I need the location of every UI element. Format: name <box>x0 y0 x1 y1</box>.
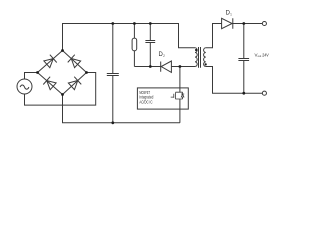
wire secondary bottom to output minus terminal <box>206 67 263 94</box>
wire dc+ top rail from bridge to transformer primary top <box>63 24 196 51</box>
wire bridge bottom-right edge <box>63 73 87 95</box>
svg-text:AC/DC IC: AC/DC IC <box>139 99 152 104</box>
node snubber C2 bottom <box>149 65 152 68</box>
diode bridge bottom-right <box>68 77 81 90</box>
wire dc- bottom rail from bridge to mosfet source <box>63 95 180 123</box>
node output minus <box>242 92 245 95</box>
diode bridge top-right <box>68 55 81 68</box>
diode bridge bottom-left <box>43 77 56 90</box>
wire bridge top-right edge <box>63 51 87 73</box>
node bridge left <box>36 71 39 74</box>
svg-text:2: 2 <box>163 54 165 58</box>
polarity dot secondary <box>205 63 207 65</box>
node bridge right <box>85 71 88 74</box>
node drain junction <box>179 65 182 68</box>
resistor R1 snubber <box>132 24 137 67</box>
node output plus <box>242 22 245 25</box>
ac source V1 <box>17 79 32 94</box>
svg-text:1: 1 <box>230 13 232 17</box>
diode D2 snubber clamp <box>161 61 172 72</box>
node bridge bottom <box>61 93 64 96</box>
wire D1 cathode to output plus terminal <box>233 23 263 25</box>
node C1 bottom <box>111 121 114 124</box>
diode D1 output rectifier <box>222 18 233 28</box>
label Vout 24V <box>255 52 269 58</box>
terminal output minus <box>262 91 266 95</box>
svg-text:24V: 24V <box>262 52 269 57</box>
node rail C2 top <box>149 22 152 25</box>
transformer T1 core <box>199 47 201 68</box>
label D2 <box>159 51 165 58</box>
svg-text:out: out <box>258 54 262 58</box>
terminal output plus <box>262 21 266 25</box>
wire ac hot to bridge left node <box>25 73 38 80</box>
mosfet Q1 symbol inside ic <box>171 92 185 99</box>
node bridge top <box>61 49 64 52</box>
diode bridge top-left <box>43 55 56 68</box>
ic U1 box outline <box>137 88 188 109</box>
node rail R1 top <box>133 22 136 25</box>
capacitor C3 output <box>238 24 249 94</box>
label D1 <box>226 9 232 16</box>
wire mosfet drain <box>179 67 181 93</box>
wire bridge bottom-left edge <box>38 73 63 95</box>
capacitor C2 snubber <box>145 24 155 67</box>
transformer T1 primary winding <box>195 48 197 67</box>
wire secondary top to D1 anode <box>206 24 222 48</box>
wire snubber node <box>134 66 160 68</box>
transformer T1 secondary winding <box>204 48 206 67</box>
polarity dot primary <box>195 49 197 51</box>
capacitor C1 bulk <box>107 24 119 123</box>
node rail C1 top <box>111 22 114 25</box>
wire ac return to bridge right node <box>25 73 96 106</box>
wire mosfet source to bottom rail <box>179 99 181 123</box>
wire drain node to primary bottom <box>171 66 195 68</box>
wire bridge top-left edge <box>38 51 63 73</box>
